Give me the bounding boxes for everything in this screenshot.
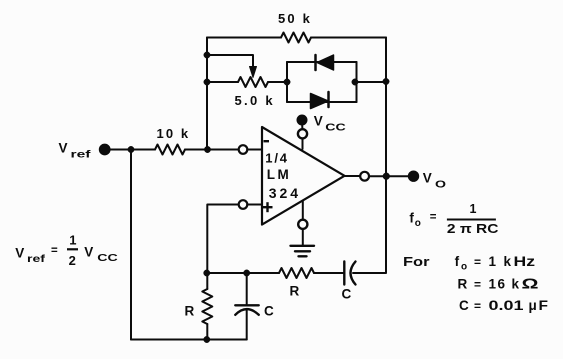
- wire inverting input: [110, 149, 151, 151]
- resistor 10k zigzag: [155, 145, 185, 155]
- diode box bottom branch: [287, 101, 357, 103]
- formula fo = 1/(2 pi RC): [409, 202, 499, 236]
- terminal dot Vo: [408, 171, 418, 181]
- junction dot Vref node: [128, 146, 134, 152]
- diode box right edge: [356, 62, 358, 102]
- wire 5.0k left lead: [207, 81, 238, 83]
- wire left upper vertical: [206, 38, 208, 150]
- pin circle inverting input: [239, 145, 248, 154]
- wire pin to triangle (+): [247, 204, 262, 206]
- junction dot output node: [383, 173, 390, 180]
- wire diode box to right vertical: [357, 81, 387, 83]
- svg-text:C: C: [264, 304, 274, 319]
- svg-text:For: For: [403, 254, 430, 269]
- svg-text:=: =: [430, 211, 437, 223]
- ground symbol: [291, 246, 315, 256]
- label plus inside op-amp: [263, 202, 273, 212]
- wire bottom return: [131, 339, 247, 341]
- formula For fo = 1 kHz: [403, 254, 535, 273]
- svg-text:2 π RC: 2 π RC: [447, 221, 499, 236]
- wire 10k to op-amp: [185, 149, 239, 151]
- wire pin to triangle: [247, 149, 262, 151]
- diode box top branch: [287, 61, 357, 63]
- pin circle output: [360, 172, 369, 181]
- svg-text:=: =: [51, 245, 58, 257]
- wire pin to ground symbol: [302, 229, 304, 246]
- op-amp U1 triangle: [262, 127, 345, 225]
- svg-text:5.0 k: 5.0 k: [235, 93, 275, 108]
- pin circle ground: [298, 220, 307, 229]
- junction dot inverting node: [204, 146, 210, 152]
- svg-text:R: R: [290, 284, 300, 299]
- resistor 5.0k zigzag: [238, 77, 268, 87]
- resistor R2 zigzag: [279, 268, 314, 278]
- resistor 50k zigzag: [281, 33, 311, 43]
- junction dot pot bottom branch: [204, 79, 210, 85]
- junction dot diode box left: [284, 79, 290, 85]
- svg-text:1: 1: [470, 202, 477, 216]
- svg-text:50 k: 50 k: [278, 11, 312, 26]
- terminal dot Vref: [99, 144, 110, 155]
- wire output lead: [345, 175, 361, 177]
- svg-text:R: R: [185, 304, 195, 319]
- junction dot right vertical upper: [383, 78, 389, 84]
- wire 5.0k right lead: [268, 81, 287, 83]
- label minus inside op-amp: [264, 140, 270, 142]
- wire RC node horizontal: [207, 272, 247, 274]
- diode D1 (top, pointing left): [316, 55, 334, 70]
- wire top feedback left lead: [207, 37, 281, 39]
- svg-text:324: 324: [269, 185, 301, 201]
- svg-text:10 k: 10 k: [157, 126, 191, 141]
- wire vcc dot to pin: [301, 125, 303, 129]
- junction dot pot top branch: [204, 52, 210, 58]
- capacitor C (vertical): [235, 273, 258, 340]
- resistor R (vertical): [202, 273, 212, 340]
- svg-text:1/4: 1/4: [265, 151, 288, 166]
- svg-text:LM: LM: [267, 167, 292, 182]
- wire R2 left lead: [247, 272, 279, 274]
- junction dot bottom: [204, 336, 210, 342]
- pin circle VCC: [298, 129, 307, 138]
- pot wiper arrowhead: [250, 67, 257, 78]
- wire left vertical (Vref branch): [130, 150, 132, 340]
- wire output to node: [369, 175, 408, 177]
- svg-text:C: C: [342, 287, 352, 302]
- diode box left edge: [286, 62, 288, 102]
- svg-text:2: 2: [69, 253, 76, 268]
- wire vcc pin stem: [302, 139, 304, 150]
- capacitor C2 plates: [344, 262, 355, 285]
- wire pot wiper branch: [207, 55, 253, 67]
- wire non-inverting input: [207, 205, 238, 274]
- junction dot C top: [244, 270, 250, 276]
- wire C2 to right vertical: [353, 272, 386, 274]
- terminal dot VCC: [297, 115, 307, 125]
- svg-text:1: 1: [69, 232, 76, 247]
- pin circle non-inverting input: [239, 200, 248, 209]
- formula Vref = 1/2 Vcc: [15, 232, 118, 268]
- junction dot R top: [204, 270, 210, 276]
- junction dot diode box right: [352, 79, 358, 85]
- wire ground pin stem: [302, 201, 304, 220]
- wire right vertical: [385, 38, 387, 273]
- wire R2 to C2: [314, 272, 344, 274]
- diode D2 (bottom, pointing right): [311, 92, 329, 109]
- wire top feedback right lead: [311, 37, 386, 39]
